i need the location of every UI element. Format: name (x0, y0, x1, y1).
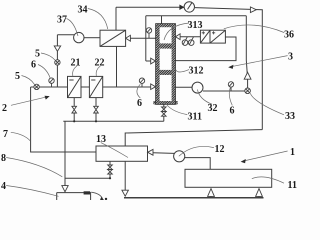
svg-text:37: 37 (57, 14, 67, 25)
svg-text:22: 22 (95, 58, 105, 69)
svg-text:2: 2 (2, 103, 7, 114)
svg-text:21: 21 (71, 58, 81, 69)
svg-text:12: 12 (215, 144, 225, 155)
svg-text:36: 36 (284, 30, 294, 41)
svg-text:1: 1 (290, 147, 295, 158)
svg-text:32: 32 (208, 103, 218, 114)
svg-text:34: 34 (78, 4, 88, 15)
svg-text:33: 33 (285, 111, 295, 122)
svg-text:11: 11 (288, 180, 297, 191)
svg-text:5: 5 (15, 71, 20, 82)
svg-text:6: 6 (31, 60, 36, 71)
svg-text:3: 3 (288, 52, 293, 63)
svg-text:4: 4 (1, 181, 6, 192)
svg-text:7: 7 (3, 129, 8, 140)
svg-text:8: 8 (1, 153, 6, 164)
svg-text:13: 13 (96, 134, 106, 145)
svg-text:6: 6 (230, 105, 235, 116)
svg-text:313: 313 (188, 20, 203, 31)
svg-text:6: 6 (137, 98, 142, 109)
svg-text:5: 5 (35, 49, 40, 60)
svg-text:312: 312 (189, 65, 204, 76)
svg-text:311: 311 (188, 111, 202, 122)
